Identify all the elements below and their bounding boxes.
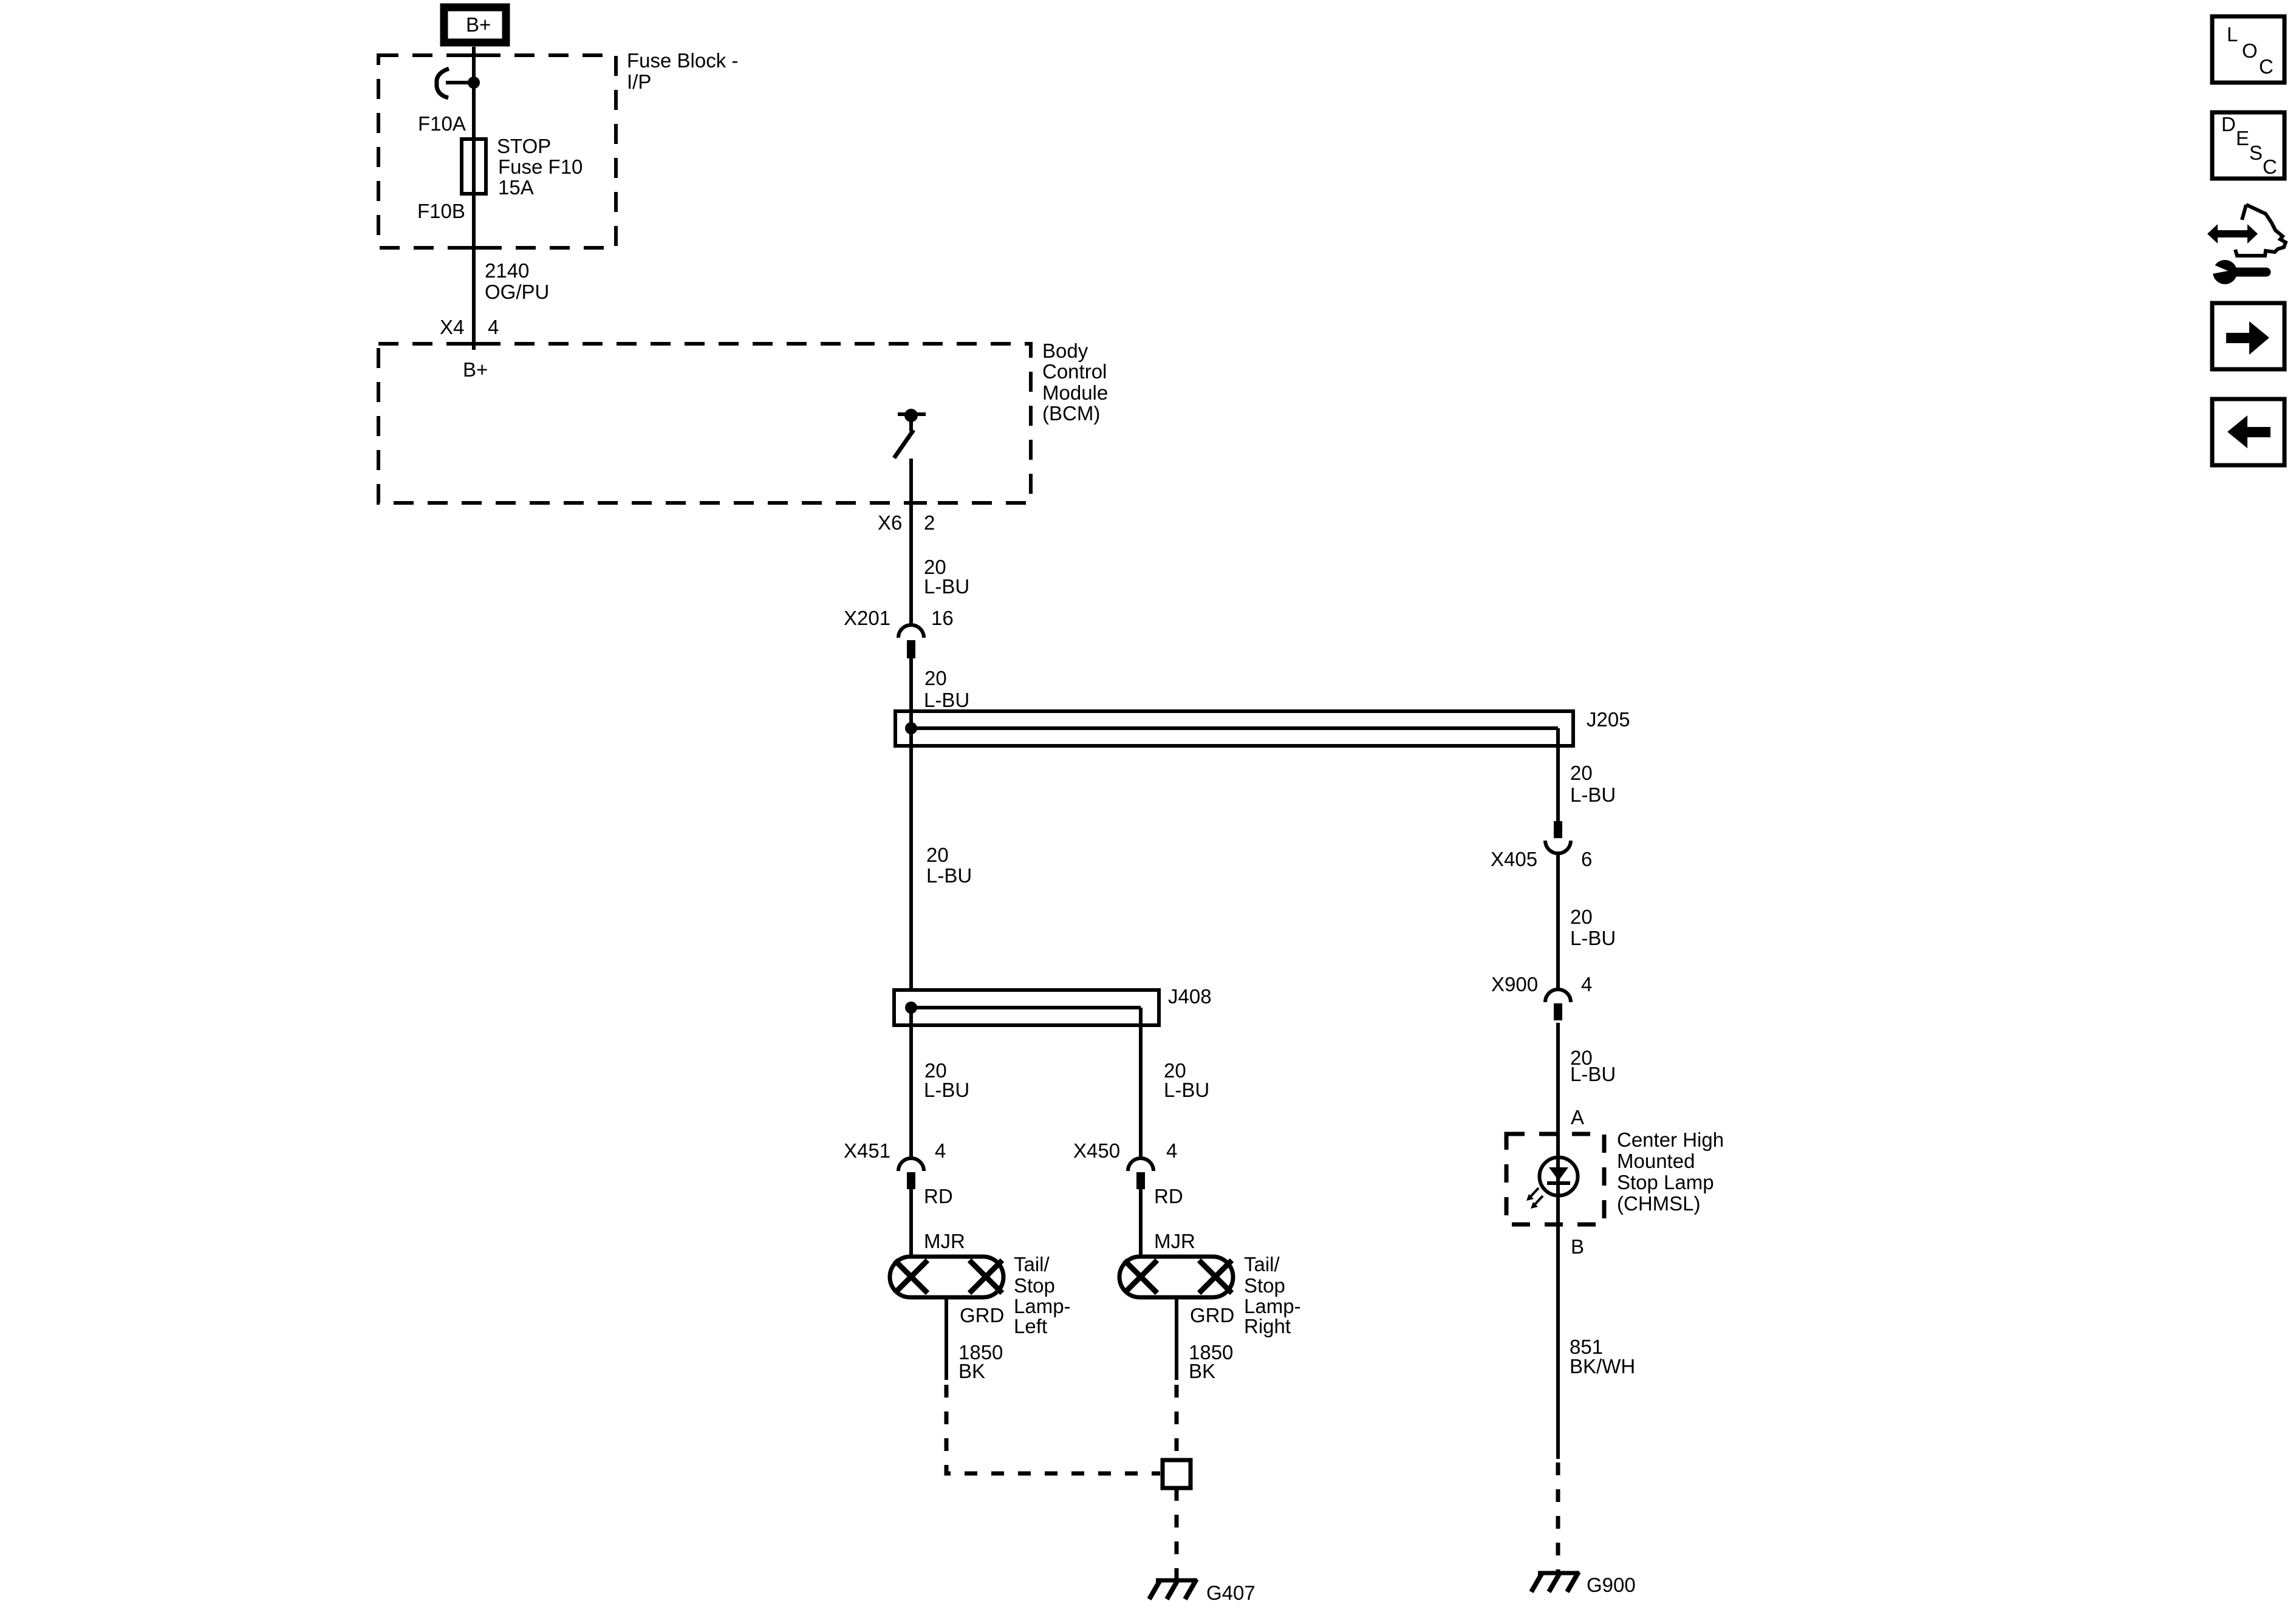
dashed wire square to G407 <box>1175 1488 1179 1579</box>
svg-text:X900: X900 <box>1491 973 1538 995</box>
wire X450 to right lamp <box>1139 1189 1143 1258</box>
svg-text:OG/PU: OG/PU <box>485 281 549 303</box>
fuse value label <box>497 135 583 199</box>
svg-text:Lamp-: Lamp- <box>1014 1295 1071 1317</box>
Tail/Stop Lamp Right label <box>1244 1253 1301 1337</box>
svg-text:X6: X6 <box>878 511 902 534</box>
svg-text:L-BU: L-BU <box>924 689 969 711</box>
wire label 2140 OG/PU <box>485 259 549 303</box>
connector label X4 pin 4 <box>440 316 499 338</box>
wire CHMSL to ground solid part <box>1556 1257 1560 1459</box>
LOC nav box <box>2212 16 2284 83</box>
svg-text:4: 4 <box>1166 1139 1177 1162</box>
svg-text:C: C <box>2263 155 2277 178</box>
svg-text:S: S <box>2249 142 2263 164</box>
wire left lamp ground solid <box>945 1297 948 1380</box>
wire label 20 L-BU <box>924 556 969 598</box>
svg-text:MJR: MJR <box>924 1230 965 1252</box>
node junction at fuse feed <box>468 77 480 89</box>
svg-text:15A: 15A <box>498 176 534 199</box>
svg-text:X4: X4 <box>440 316 464 338</box>
svg-text:BK: BK <box>1189 1360 1215 1382</box>
svg-text:D: D <box>2221 113 2236 135</box>
svg-text:L-BU: L-BU <box>1164 1079 1209 1101</box>
Fuse Block label <box>627 49 738 93</box>
in-line connector X450 pin 4 <box>1128 1158 1153 1189</box>
svg-text:X201: X201 <box>844 607 890 629</box>
wire X451 to left lamp <box>909 1189 913 1258</box>
LED lamp symbol <box>1540 1158 1578 1258</box>
svg-text:20: 20 <box>924 667 947 689</box>
wire label 1850 BK right <box>1189 1341 1233 1382</box>
svg-text:Tail/: Tail/ <box>1244 1253 1280 1275</box>
svg-text:2140: 2140 <box>485 259 529 282</box>
branch wire to bus arc <box>446 81 474 84</box>
svg-text:6: 6 <box>1581 848 1592 870</box>
CHMSL label <box>1617 1128 1724 1215</box>
svg-text:L-BU: L-BU <box>1570 927 1616 949</box>
wire label 20 L-BU <box>1570 762 1616 806</box>
double arrow icon <box>2207 224 2258 244</box>
svg-text:4: 4 <box>488 316 499 338</box>
svg-text:RD: RD <box>1154 1185 1183 1207</box>
wire label 20 L-BU <box>924 1059 969 1101</box>
Tail/Stop Lamp Left label <box>1014 1253 1071 1337</box>
svg-text:RD: RD <box>924 1185 953 1207</box>
svg-text:BK: BK <box>958 1360 985 1382</box>
svg-text:STOP: STOP <box>497 135 551 157</box>
wire J205 through bottom left branch <box>909 728 913 991</box>
wire switch to X201 <box>909 459 913 626</box>
svg-text:J205: J205 <box>1587 708 1630 731</box>
svg-text:E: E <box>2236 127 2249 149</box>
svg-text:(CHMSL): (CHMSL) <box>1617 1192 1701 1215</box>
svg-text:L: L <box>2227 23 2238 46</box>
svg-text:Control: Control <box>1042 360 1107 383</box>
Tail/Stop Lamp Right bulb <box>1119 1257 1233 1297</box>
svg-text:Mounted: Mounted <box>1617 1150 1695 1172</box>
svg-text:GRD: GRD <box>1190 1304 1234 1326</box>
svg-text:B+: B+ <box>463 358 488 381</box>
tick BCM bottom crossing <box>905 501 927 505</box>
svg-text:Body: Body <box>1042 340 1088 362</box>
svg-text:20: 20 <box>1570 906 1593 928</box>
splice pack J408 <box>894 990 1159 1025</box>
in-line connector X405 pin 6 <box>1545 821 1571 853</box>
vehicle outline icon <box>2235 205 2286 256</box>
svg-text:L-BU: L-BU <box>1570 1063 1616 1085</box>
wire B+ to fuse <box>472 47 476 141</box>
wire label 20 L-BU <box>1164 1059 1209 1101</box>
wrench icon <box>2209 260 2266 284</box>
ground G407 <box>1149 1579 1197 1599</box>
Fuse Block - I/P dashed box <box>378 55 616 248</box>
BCM label <box>1042 340 1108 425</box>
svg-text:B+: B+ <box>466 13 491 36</box>
svg-text:(BCM): (BCM) <box>1042 402 1100 425</box>
svg-text:Module: Module <box>1042 381 1108 404</box>
wire label 1850 BK left <box>958 1341 1003 1382</box>
svg-text:A: A <box>1571 1106 1584 1128</box>
svg-text:20: 20 <box>926 844 949 866</box>
dashed wire left lamp to splice square <box>946 1385 1160 1473</box>
svg-text:MJR: MJR <box>1154 1230 1195 1252</box>
svg-text:Lamp-: Lamp- <box>1244 1295 1301 1317</box>
svg-text:B: B <box>1571 1235 1584 1258</box>
wire X900 to CHMSL <box>1556 1023 1560 1158</box>
dashed wire to G900 <box>1556 1463 1560 1572</box>
svg-text:L-BU: L-BU <box>1570 783 1616 806</box>
svg-text:GRD: GRD <box>960 1304 1004 1326</box>
wire J408 right branch to X450 <box>1139 1008 1143 1158</box>
svg-text:X451: X451 <box>844 1139 890 1162</box>
svg-text:Right: Right <box>1244 1315 1291 1337</box>
X451 label <box>844 1139 946 1162</box>
CHMSL dashed box <box>1506 1134 1604 1224</box>
wire label 851 BK/WH <box>1570 1336 1635 1377</box>
wire label 20 L-BU <box>1570 1046 1616 1085</box>
DESC nav box <box>2212 112 2284 179</box>
wire X405 to X900 <box>1556 853 1560 989</box>
wire right lamp ground solid <box>1175 1297 1178 1380</box>
tick fuse box top crossing <box>460 53 490 57</box>
svg-text:BK/WH: BK/WH <box>1570 1355 1635 1377</box>
Body Control Module dashed box <box>378 344 1031 503</box>
svg-text:Stop: Stop <box>1244 1274 1285 1297</box>
wire J408 left branch to X451 <box>909 1008 913 1158</box>
in-line connector X451 pin 4 <box>898 1158 924 1189</box>
svg-text:G900: G900 <box>1587 1574 1636 1596</box>
svg-text:4: 4 <box>935 1139 946 1162</box>
svg-text:Stop Lamp: Stop Lamp <box>1617 1171 1714 1193</box>
splice pack J205 <box>895 711 1573 746</box>
X900 label <box>1491 973 1592 995</box>
svg-text:Fuse F10: Fuse F10 <box>498 155 583 178</box>
svg-text:L-BU: L-BU <box>926 864 972 887</box>
svg-text:Fuse Block -: Fuse Block - <box>627 49 738 72</box>
wire label 20 L-BU <box>924 667 969 711</box>
svg-text:I/P: I/P <box>627 70 651 93</box>
wire label 20 L-BU <box>926 844 972 887</box>
svg-text:C: C <box>2259 55 2274 78</box>
svg-text:Center High: Center High <box>1617 1128 1724 1151</box>
svg-text:G407: G407 <box>1206 1582 1256 1604</box>
B+ power terminal box <box>444 7 506 43</box>
svg-text:Tail/: Tail/ <box>1014 1253 1050 1275</box>
svg-text:X405: X405 <box>1491 848 1537 870</box>
in-line connector X201 pin 16 <box>898 625 924 658</box>
dashed wire right lamp to splice square <box>1175 1385 1179 1460</box>
svg-text:16: 16 <box>931 607 954 629</box>
X450 label <box>1073 1139 1177 1162</box>
svg-text:20: 20 <box>1570 762 1593 784</box>
svg-text:2: 2 <box>924 511 935 534</box>
wire X201 to J205 <box>909 657 913 728</box>
fuse F10 <box>462 139 486 194</box>
svg-text:Left: Left <box>1014 1315 1047 1337</box>
svg-text:F10A: F10A <box>418 112 466 135</box>
svg-text:F10B: F10B <box>417 200 465 222</box>
svg-text:X450: X450 <box>1073 1139 1120 1162</box>
wire J205 right branch down <box>1556 728 1560 821</box>
switch inside BCM <box>894 409 926 458</box>
bus bar arc symbol <box>437 69 449 98</box>
Tail/Stop Lamp Left bulb <box>890 1257 1003 1297</box>
X201 label <box>844 607 954 629</box>
svg-text:4: 4 <box>1581 973 1592 995</box>
connector label X6 pin 2 <box>878 511 935 534</box>
ground G900 <box>1531 1572 1579 1592</box>
svg-text:J408: J408 <box>1168 985 1212 1008</box>
tick BCM top crossing <box>460 342 490 346</box>
wire label 20 L-BU <box>1570 906 1616 949</box>
svg-text:Stop: Stop <box>1014 1274 1055 1297</box>
tick fuse box bottom crossing <box>460 246 490 250</box>
wire fuse to BCM <box>472 194 476 350</box>
svg-text:L-BU: L-BU <box>924 1079 969 1101</box>
svg-text:L-BU: L-BU <box>924 575 969 598</box>
svg-text:O: O <box>2242 39 2258 62</box>
X405 label <box>1491 848 1592 870</box>
back arrow nav box <box>2212 399 2284 465</box>
ground splice square <box>1163 1460 1191 1488</box>
LED light arrows <box>1526 1188 1543 1209</box>
forward arrow nav box <box>2212 303 2284 369</box>
in-line connector X900 pin 4 <box>1545 989 1571 1020</box>
